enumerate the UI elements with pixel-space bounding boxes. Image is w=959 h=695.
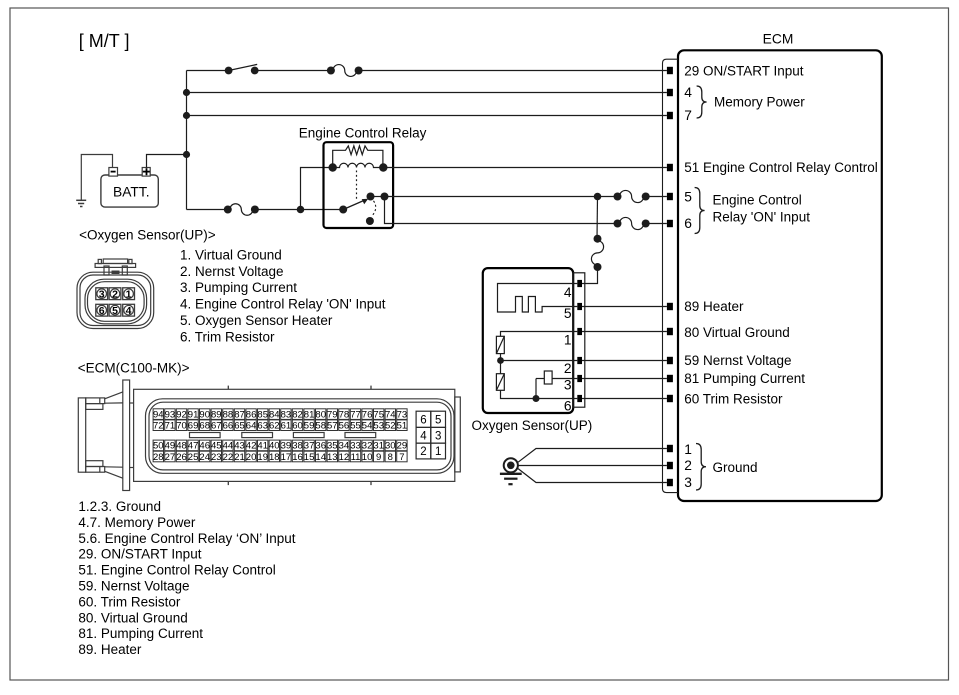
svg-text:79: 79 bbox=[327, 409, 338, 420]
svg-text:36: 36 bbox=[315, 441, 326, 452]
svg-text:32: 32 bbox=[362, 441, 373, 452]
ECM pin 51 bbox=[667, 164, 673, 171]
svg-text:3: 3 bbox=[435, 430, 441, 442]
wire ground to pin 3 bbox=[518, 469, 667, 483]
svg-text:5: 5 bbox=[435, 414, 441, 426]
fuse F5 vertical bbox=[591, 241, 603, 265]
svg-text:5: 5 bbox=[564, 306, 572, 321]
wire heater to pin 89 bbox=[582, 306, 667, 308]
svg-text:13: 13 bbox=[327, 452, 338, 463]
svg-text:92: 92 bbox=[176, 409, 187, 420]
svg-text:11: 11 bbox=[351, 452, 361, 463]
brace ground bbox=[696, 444, 706, 491]
ECM pin 7 bbox=[667, 112, 673, 119]
node sensor feed junction bbox=[594, 193, 602, 201]
ECM pin 59 bbox=[667, 357, 673, 364]
wire to pin 7 bbox=[187, 115, 667, 117]
wire relay output to pin 5 bbox=[385, 196, 618, 198]
wire to pin 60 bbox=[582, 398, 667, 400]
svg-text:9: 9 bbox=[376, 452, 381, 463]
relay contact travel dashed bbox=[372, 201, 376, 217]
svg-text:2: 2 bbox=[112, 288, 118, 300]
svg-text:89. Heater: 89. Heater bbox=[78, 642, 142, 657]
wire ground to pin 2 bbox=[519, 465, 667, 467]
node virtual ground junction bbox=[497, 357, 504, 364]
svg-text:51. Engine Control Relay Contr: 51. Engine Control Relay Control bbox=[78, 563, 275, 578]
svg-text:Memory Power: Memory Power bbox=[714, 95, 805, 110]
svg-text:10: 10 bbox=[362, 452, 373, 463]
svg-text:80: 80 bbox=[315, 409, 326, 420]
svg-text:77: 77 bbox=[350, 409, 361, 420]
ECM pin 29 bbox=[667, 67, 673, 74]
svg-text:17: 17 bbox=[281, 452, 292, 463]
svg-text:33: 33 bbox=[350, 441, 361, 452]
svg-text:3: 3 bbox=[684, 475, 692, 490]
svg-text:4: 4 bbox=[684, 85, 692, 100]
svg-text:2. Nernst Voltage: 2. Nernst Voltage bbox=[180, 264, 284, 279]
node bus-memory1 bbox=[183, 89, 190, 96]
svg-text:29. ON/START Input: 29. ON/START Input bbox=[78, 547, 201, 562]
sensor pin 2 bbox=[577, 357, 582, 364]
svg-text:29: 29 bbox=[397, 441, 408, 452]
svg-text:62: 62 bbox=[269, 421, 280, 432]
node coil left bbox=[329, 163, 337, 171]
svg-text:89: 89 bbox=[211, 409, 222, 420]
svg-text:5. Oxygen Sensor Heater: 5. Oxygen Sensor Heater bbox=[180, 313, 333, 328]
wire relay actuation dotted bbox=[356, 171, 358, 201]
svg-text:ECM: ECM bbox=[763, 32, 794, 47]
svg-text:59. Nernst Voltage: 59. Nernst Voltage bbox=[78, 579, 189, 594]
svg-text:2: 2 bbox=[684, 458, 692, 473]
svg-text:71: 71 bbox=[165, 421, 176, 432]
wire pin 2 bbox=[501, 360, 578, 362]
svg-text:35: 35 bbox=[327, 441, 338, 452]
svg-text:68: 68 bbox=[199, 421, 210, 432]
node battery junction bbox=[183, 151, 190, 158]
svg-text:88: 88 bbox=[223, 409, 234, 420]
svg-text:1.2.3. Ground: 1.2.3. Ground bbox=[78, 499, 161, 514]
svg-text:1: 1 bbox=[564, 332, 572, 347]
svg-text:28: 28 bbox=[153, 452, 164, 463]
svg-text:<Oxygen Sensor(UP)>: <Oxygen Sensor(UP)> bbox=[79, 228, 216, 243]
svg-text:46: 46 bbox=[199, 441, 210, 452]
wire battery positive to node bbox=[147, 155, 187, 168]
svg-text:63: 63 bbox=[257, 421, 268, 432]
svg-text:52: 52 bbox=[385, 421, 396, 432]
ECM connector pin grid bbox=[153, 409, 163, 420]
sensor connector pin 2 bbox=[109, 288, 121, 300]
svg-text:81 Pumping Current: 81 Pumping Current bbox=[684, 371, 805, 386]
svg-text:[ M/T ]: [ M/T ] bbox=[79, 31, 130, 51]
svg-text:43: 43 bbox=[234, 441, 245, 452]
svg-text:Oxygen Sensor(UP): Oxygen Sensor(UP) bbox=[472, 418, 593, 433]
svg-text:90: 90 bbox=[199, 409, 210, 420]
svg-text:1. Virtual Ground: 1. Virtual Ground bbox=[180, 247, 282, 262]
wire junction down to sensor fuse bbox=[596, 197, 599, 239]
nernst cell Z1 bbox=[501, 332, 578, 337]
ECM pin 81 bbox=[667, 375, 673, 382]
resistor relay bbox=[333, 146, 383, 168]
svg-text:21: 21 bbox=[234, 452, 245, 463]
svg-text:Ground: Ground bbox=[713, 460, 758, 475]
oxygen sensor connector view bbox=[77, 259, 154, 329]
sensor connector pin 6 bbox=[96, 304, 108, 316]
svg-text:19: 19 bbox=[257, 452, 268, 463]
wire battery negative to ground bbox=[81, 155, 112, 201]
svg-text:38: 38 bbox=[292, 441, 303, 452]
svg-text:37: 37 bbox=[304, 441, 315, 452]
svg-text:7: 7 bbox=[684, 108, 692, 123]
svg-text:60: 60 bbox=[292, 421, 303, 432]
svg-text:53: 53 bbox=[373, 421, 384, 432]
ECM pin 5 bbox=[667, 193, 673, 200]
svg-text:51: 51 bbox=[397, 421, 408, 432]
svg-text:6: 6 bbox=[99, 305, 105, 317]
svg-text:57: 57 bbox=[327, 421, 338, 432]
svg-text:44: 44 bbox=[223, 441, 234, 452]
sensor pin 1 bbox=[577, 328, 582, 335]
wire coil feed bbox=[301, 168, 333, 210]
svg-text:30: 30 bbox=[385, 441, 396, 452]
svg-text:83: 83 bbox=[281, 409, 292, 420]
svg-text:55: 55 bbox=[350, 421, 361, 432]
svg-text:24: 24 bbox=[199, 452, 210, 463]
ECM pin 6 bbox=[667, 220, 673, 227]
ECM pin 80 bbox=[667, 328, 673, 335]
ECM pin 4 bbox=[667, 89, 673, 96]
ground symbol chassis bbox=[504, 458, 518, 472]
svg-text:3: 3 bbox=[99, 288, 105, 300]
svg-text:51 Engine Control Relay Contro: 51 Engine Control Relay Control bbox=[684, 160, 878, 175]
inductor relay coil bbox=[333, 163, 384, 167]
svg-text:6: 6 bbox=[564, 398, 572, 413]
svg-text:94: 94 bbox=[153, 409, 164, 420]
svg-text:81: 81 bbox=[304, 409, 315, 420]
svg-text:18: 18 bbox=[269, 452, 280, 463]
wire ON/START to pin 29 bbox=[187, 70, 229, 72]
svg-text:54: 54 bbox=[362, 421, 373, 432]
svg-text:6: 6 bbox=[684, 216, 692, 231]
wire to pin 4 bbox=[187, 92, 667, 94]
svg-text:Engine Control Relay: Engine Control Relay bbox=[299, 126, 427, 141]
sensor connector pin 3 bbox=[96, 288, 108, 300]
ground symbol battery bbox=[76, 199, 86, 201]
wire vertical bus bbox=[186, 71, 188, 210]
svg-text:91: 91 bbox=[188, 409, 199, 420]
ECM connector face line bbox=[663, 59, 679, 492]
wire coil to pin 51 bbox=[383, 167, 667, 169]
svg-text:14: 14 bbox=[315, 452, 326, 463]
svg-text:22: 22 bbox=[223, 452, 234, 463]
svg-text:80. Virtual Ground: 80. Virtual Ground bbox=[78, 610, 187, 625]
svg-text:Relay 'ON' Input: Relay 'ON' Input bbox=[713, 210, 811, 225]
switch ignition bbox=[225, 67, 233, 75]
svg-text:3. Pumping Current: 3. Pumping Current bbox=[180, 280, 297, 295]
svg-text:70: 70 bbox=[176, 421, 187, 432]
fuse F4 bbox=[620, 217, 644, 229]
wire to pin 81 bbox=[582, 378, 667, 380]
svg-text:31: 31 bbox=[373, 441, 384, 452]
node trim junction bbox=[533, 395, 540, 402]
svg-text:12: 12 bbox=[339, 452, 350, 463]
svg-text:6: 6 bbox=[420, 414, 426, 426]
svg-text:8: 8 bbox=[388, 452, 393, 463]
ECM connector key bars bbox=[190, 433, 221, 438]
svg-text:3: 3 bbox=[564, 378, 572, 393]
svg-text:74: 74 bbox=[385, 409, 396, 420]
svg-text:29 ON/START Input: 29 ON/START Input bbox=[684, 63, 804, 78]
svg-text:1: 1 bbox=[435, 446, 441, 458]
node coil feed junction bbox=[297, 206, 305, 214]
svg-text:6. Trim Resistor: 6. Trim Resistor bbox=[180, 330, 275, 345]
svg-text:81. Pumping Current: 81. Pumping Current bbox=[78, 626, 203, 641]
svg-text:40: 40 bbox=[269, 441, 280, 452]
heater element bbox=[498, 284, 578, 313]
svg-text:69: 69 bbox=[188, 421, 199, 432]
svg-text:25: 25 bbox=[188, 452, 199, 463]
svg-text:78: 78 bbox=[339, 409, 350, 420]
battery positive terminal bbox=[142, 168, 150, 177]
node bus-memory2 bbox=[183, 112, 190, 119]
svg-text:26: 26 bbox=[176, 452, 187, 463]
ECM box U1 bbox=[678, 50, 882, 501]
sensor pin 6 bbox=[577, 395, 582, 402]
svg-text:42: 42 bbox=[246, 441, 257, 452]
wire ground to pin 1 bbox=[518, 449, 667, 463]
svg-text:86: 86 bbox=[246, 409, 257, 420]
sensor pin 4 bbox=[577, 280, 582, 287]
svg-text:16: 16 bbox=[292, 452, 303, 463]
wire fuse to sensor pin 4 bbox=[582, 267, 598, 284]
svg-text:60 Trim Resistor: 60 Trim Resistor bbox=[684, 391, 783, 406]
svg-text:59 Nernst Voltage: 59 Nernst Voltage bbox=[684, 353, 791, 368]
wire to pin 80 bbox=[582, 331, 667, 333]
relay box K1 bbox=[324, 142, 394, 228]
ECM pin 2 bbox=[667, 462, 673, 469]
brace relay on input bbox=[695, 188, 705, 234]
svg-text:82: 82 bbox=[292, 409, 303, 420]
svg-text:20: 20 bbox=[246, 452, 257, 463]
svg-text:4.7. Memory Power: 4.7. Memory Power bbox=[78, 515, 196, 530]
svg-text:61: 61 bbox=[281, 421, 292, 432]
svg-text:73: 73 bbox=[397, 409, 408, 420]
svg-text:7: 7 bbox=[399, 452, 404, 463]
battery negative terminal bbox=[109, 168, 118, 177]
sensor pin strip bbox=[573, 273, 585, 407]
svg-text:41: 41 bbox=[257, 441, 268, 452]
svg-text:72: 72 bbox=[153, 421, 164, 432]
ECM connector view bbox=[78, 380, 460, 491]
sensor pin 5 bbox=[577, 303, 582, 310]
ECM pin 3 bbox=[667, 479, 673, 486]
svg-text:80 Virtual Ground: 80 Virtual Ground bbox=[684, 325, 790, 340]
relay contact out bbox=[381, 193, 389, 201]
svg-text:58: 58 bbox=[315, 421, 326, 432]
svg-text:47: 47 bbox=[188, 441, 199, 452]
ECM connector small grid bbox=[416, 411, 431, 427]
svg-text:76: 76 bbox=[362, 409, 373, 420]
svg-text:27: 27 bbox=[165, 452, 176, 463]
oxygen sensor box B1 bbox=[483, 268, 573, 413]
svg-text:87: 87 bbox=[234, 409, 245, 420]
svg-text:5: 5 bbox=[112, 305, 118, 317]
svg-text:66: 66 bbox=[223, 421, 234, 432]
relay switch common bbox=[339, 206, 347, 214]
svg-text:<ECM(C100-MK)>: <ECM(C100-MK)> bbox=[78, 361, 190, 376]
svg-text:4: 4 bbox=[126, 305, 132, 317]
svg-text:5.6. Engine Control Relay ‘ON’: 5.6. Engine Control Relay ‘ON’ Input bbox=[78, 531, 295, 546]
pump cell Z2 bbox=[500, 361, 502, 374]
fuse F2 bbox=[230, 204, 253, 216]
svg-text:93: 93 bbox=[165, 409, 176, 420]
sensor connector pin 5 bbox=[109, 304, 121, 316]
svg-text:89 Heater: 89 Heater bbox=[684, 299, 744, 314]
relay contact NO bbox=[367, 193, 375, 201]
svg-text:4. Engine Control Relay 'ON' I: 4. Engine Control Relay 'ON' Input bbox=[180, 297, 386, 312]
svg-text:50: 50 bbox=[153, 441, 164, 452]
svg-text:Engine Control: Engine Control bbox=[713, 193, 802, 208]
svg-text:65: 65 bbox=[234, 421, 245, 432]
wire to pin 59 bbox=[582, 360, 667, 362]
svg-text:60. Trim Resistor: 60. Trim Resistor bbox=[78, 594, 181, 609]
svg-text:85: 85 bbox=[257, 409, 268, 420]
relay switch arm bbox=[343, 201, 363, 210]
svg-text:4: 4 bbox=[564, 285, 572, 300]
sensor connector pin 4 bbox=[123, 304, 135, 316]
fuse F1 bbox=[333, 65, 357, 77]
svg-text:49: 49 bbox=[165, 441, 176, 452]
svg-text:56: 56 bbox=[339, 421, 350, 432]
battery BATT bbox=[101, 175, 158, 207]
svg-text:2: 2 bbox=[564, 361, 572, 376]
svg-text:1: 1 bbox=[126, 288, 132, 300]
svg-text:75: 75 bbox=[373, 409, 384, 420]
svg-text:48: 48 bbox=[176, 441, 187, 452]
svg-text:67: 67 bbox=[211, 421, 222, 432]
svg-text:23: 23 bbox=[211, 452, 222, 463]
brace memory power bbox=[697, 86, 707, 118]
svg-text:BATT.: BATT. bbox=[113, 185, 150, 200]
trim resistor R1 bbox=[535, 379, 537, 399]
svg-text:84: 84 bbox=[269, 409, 280, 420]
svg-text:5: 5 bbox=[684, 190, 692, 205]
ECM pin 1 bbox=[667, 445, 673, 452]
fuse F3 bbox=[620, 190, 644, 202]
relay contact NC bbox=[366, 217, 374, 225]
svg-text:1: 1 bbox=[684, 442, 692, 457]
svg-text:59: 59 bbox=[304, 421, 315, 432]
svg-text:39: 39 bbox=[281, 441, 292, 452]
wire battery feed to relay bbox=[187, 209, 228, 211]
wire relay output to pin 6 bbox=[385, 197, 618, 224]
ECM pin 60 bbox=[667, 395, 673, 402]
svg-text:4: 4 bbox=[420, 430, 427, 442]
ECM pin 89 bbox=[667, 303, 673, 310]
svg-text:45: 45 bbox=[211, 441, 222, 452]
sensor connector pin 1 bbox=[123, 288, 135, 300]
sensor pin 3 bbox=[577, 375, 582, 382]
svg-text:2: 2 bbox=[420, 446, 426, 458]
node coil right bbox=[379, 163, 387, 171]
svg-text:15: 15 bbox=[304, 452, 315, 463]
svg-text:34: 34 bbox=[339, 441, 350, 452]
svg-text:64: 64 bbox=[246, 421, 257, 432]
